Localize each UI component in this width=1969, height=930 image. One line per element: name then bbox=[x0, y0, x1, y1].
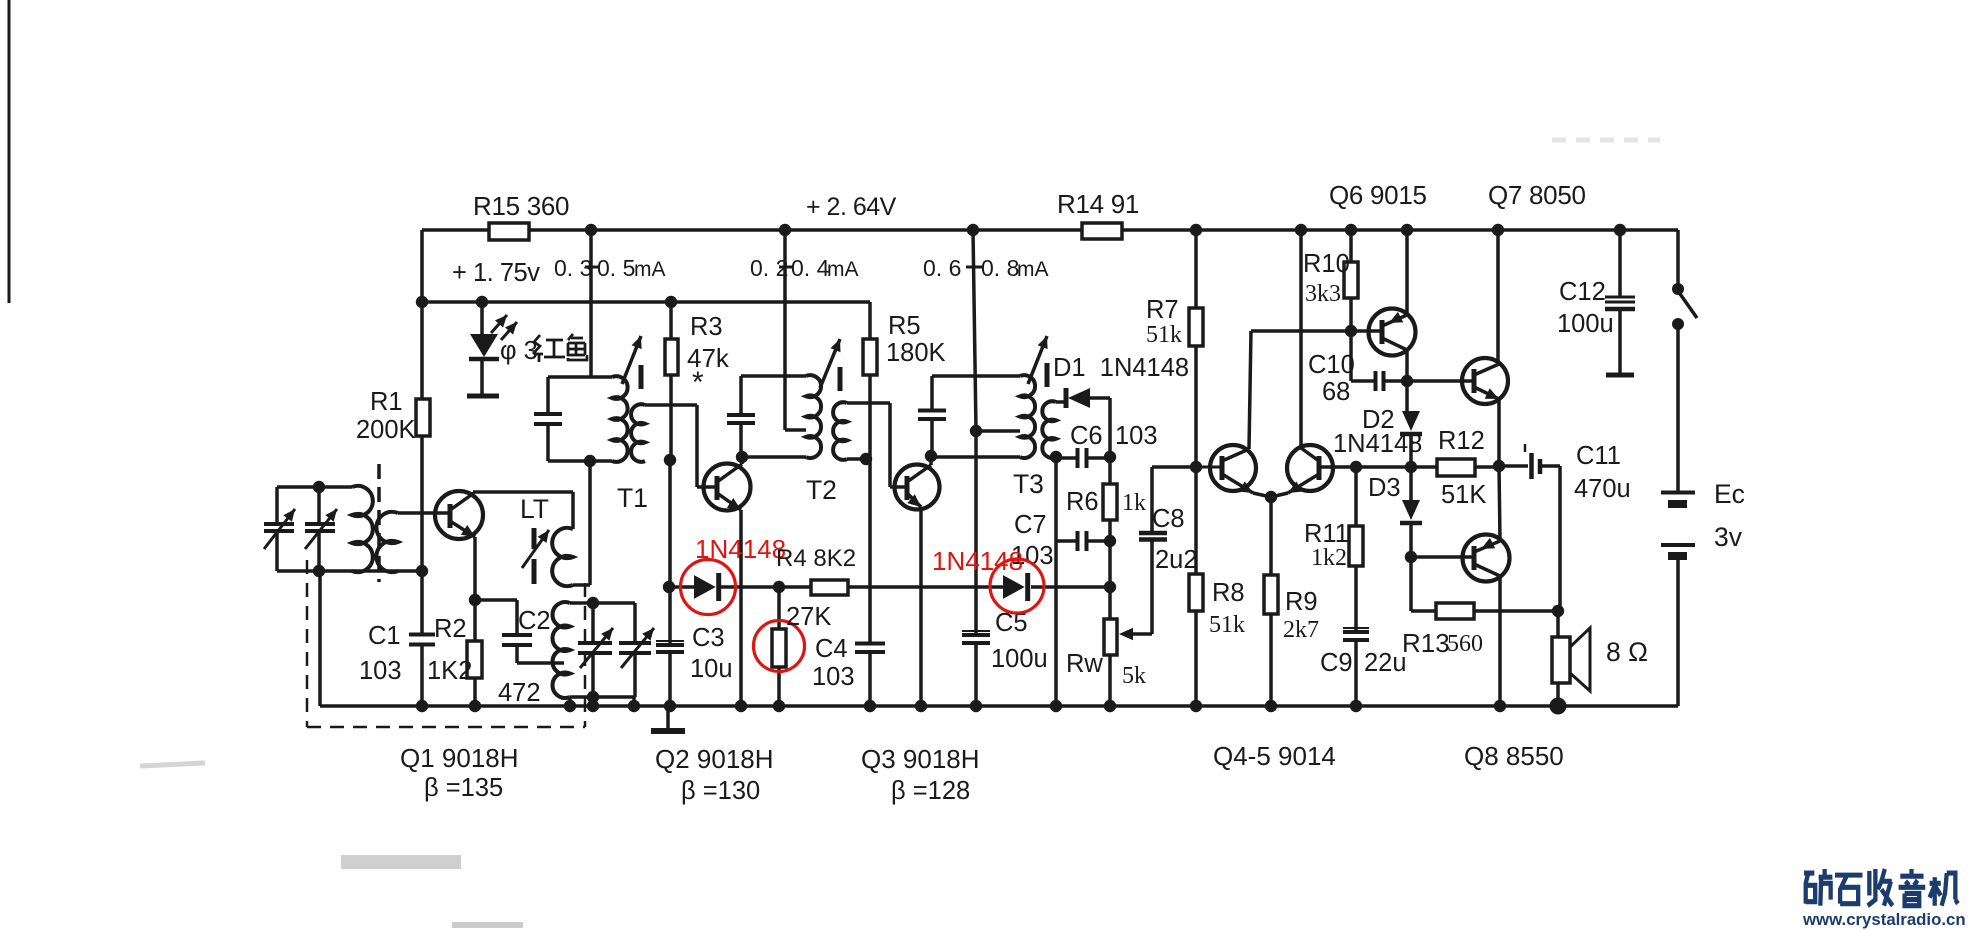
svg-text:+ 1. 75v: + 1. 75v bbox=[452, 259, 540, 287]
wire Q4 emitter to node bbox=[1253, 493, 1271, 497]
svg-text:103: 103 bbox=[1115, 422, 1158, 450]
node Q8-base-node bbox=[1405, 551, 1417, 563]
resistor R3 bbox=[665, 339, 678, 375]
wire Q8 emitter up bbox=[1499, 466, 1500, 541]
transistor Q2 bbox=[704, 464, 751, 511]
svg-text:R12: R12 bbox=[1438, 427, 1485, 455]
svg-text:R4 8K2: R4 8K2 bbox=[776, 545, 856, 572]
wire T2 supply x785 bbox=[783, 230, 787, 430]
T3 core adjust bbox=[1028, 336, 1047, 384]
node Q4-base bbox=[1190, 461, 1202, 473]
wire T2 bottom bbox=[742, 455, 806, 459]
wire T1bot to LT bbox=[588, 461, 592, 585]
svg-text:10u: 10u bbox=[690, 655, 733, 683]
node Q7-coll-top bbox=[1492, 224, 1504, 236]
node det-line-left bbox=[663, 581, 675, 593]
svg-text:100u: 100u bbox=[991, 645, 1048, 673]
svg-text:T2: T2 bbox=[806, 475, 837, 505]
wire left supply vertical (x422) bbox=[420, 230, 424, 302]
svg-text:Q8 8550: Q8 8550 bbox=[1464, 741, 1564, 771]
node ant-bot bbox=[313, 565, 325, 577]
node Q6-coll-top bbox=[1401, 224, 1413, 236]
wire +1.75v rail bbox=[422, 300, 870, 304]
node T1-supply bbox=[585, 224, 597, 236]
resistor R6 bbox=[1103, 484, 1117, 520]
wire 27K resistor bbox=[777, 587, 781, 629]
dashed box bottom bbox=[307, 726, 585, 729]
ground symbol bbox=[666, 706, 670, 729]
svg-text:68: 68 bbox=[1322, 378, 1350, 406]
node C6-right bbox=[1104, 451, 1116, 463]
svg-text:R1: R1 bbox=[370, 388, 403, 416]
svg-text:1K2: 1K2 bbox=[427, 657, 472, 685]
svg-text:R14 91: R14 91 bbox=[1057, 189, 1139, 219]
wire T3 mid vertical bbox=[974, 431, 978, 587]
diode D3 bbox=[1402, 500, 1420, 520]
svg-text:470u: 470u bbox=[1574, 475, 1631, 503]
svg-text:1N4148: 1N4148 bbox=[932, 546, 1023, 576]
svg-text:22u: 22u bbox=[1364, 649, 1407, 677]
svg-text:R5: R5 bbox=[888, 312, 921, 340]
wire +2.64V top supply rail bbox=[422, 228, 1678, 232]
transistor Q3 bbox=[895, 465, 940, 510]
T1 core adjust bbox=[622, 336, 641, 384]
wire C3 vertical bbox=[668, 460, 672, 587]
dashed box right bbox=[584, 583, 587, 727]
svg-text:D1 1N4148: D1 1N4148 bbox=[1053, 354, 1189, 382]
wire T1 cap branch bbox=[546, 377, 550, 414]
variable capacitor CV2 arrow bbox=[305, 509, 337, 549]
coil T1 primary bbox=[612, 376, 628, 462]
node output-node bbox=[1493, 460, 1505, 472]
variable capacitor CV3 arrow bbox=[580, 628, 613, 668]
capacitor T3 tuning cap bbox=[918, 409, 946, 413]
wire osc varcap2 bbox=[633, 603, 637, 643]
resistor R10 bbox=[1344, 262, 1358, 298]
wire osc varcap1 bbox=[591, 603, 595, 643]
capacitor C5 (100u) bbox=[962, 633, 990, 637]
node D2D3-line bbox=[1405, 461, 1417, 473]
node C12-top bbox=[1614, 224, 1626, 236]
node T2sec-bot-R5 bbox=[860, 453, 872, 465]
capacitor C12 (100u) bbox=[1605, 296, 1635, 299]
svg-text:Rw: Rw bbox=[1066, 650, 1103, 678]
node rail2-x482 bbox=[476, 296, 488, 308]
resistor R15 bbox=[489, 223, 529, 240]
gray smudge 2 bbox=[140, 763, 205, 766]
LED D-led bbox=[470, 334, 498, 357]
resistor R8 bbox=[1189, 574, 1203, 611]
svg-text:0. 8: 0. 8 bbox=[981, 255, 1019, 281]
svg-text:560: 560 bbox=[1447, 631, 1483, 657]
svg-text:1N4148: 1N4148 bbox=[1333, 430, 1422, 458]
diode D4 1N4148 bbox=[694, 575, 716, 599]
wire osc coil gnd stub bbox=[568, 697, 572, 706]
capacitor T1 tuning cap bbox=[534, 412, 562, 416]
variable capacitor CV4 arrow bbox=[621, 628, 654, 668]
capacitor C1 bbox=[409, 633, 435, 637]
wire T3 supply x976 bbox=[973, 230, 976, 430]
resistor R4 bbox=[811, 580, 848, 595]
resistor R13 bbox=[1436, 603, 1474, 619]
svg-text:C12: C12 bbox=[1559, 278, 1606, 306]
node R10-top bbox=[1345, 224, 1357, 236]
wire D3 to Q8 base bbox=[1409, 523, 1413, 557]
node Q2-coll-T2 bbox=[736, 451, 748, 463]
resistor R1 bbox=[416, 399, 430, 436]
resistor R7 bbox=[1189, 308, 1203, 346]
LT core adjust symbol bbox=[532, 528, 537, 549]
node det-27K bbox=[773, 581, 785, 593]
node T3sec-bot bbox=[1050, 451, 1062, 463]
svg-text:51k: 51k bbox=[1209, 612, 1245, 638]
wire Q6 collector bbox=[1405, 230, 1409, 316]
svg-text:3v: 3v bbox=[1714, 522, 1743, 552]
wire C12 vertical bbox=[1618, 230, 1622, 297]
wire T3 bottom bbox=[931, 455, 1020, 459]
wire Q8 collector down bbox=[1498, 576, 1502, 706]
wire ground rail bbox=[320, 704, 1678, 708]
svg-text:51k: 51k bbox=[1146, 322, 1182, 348]
node osc-bot-vc1 bbox=[587, 691, 599, 703]
potentiometer Rw bbox=[1104, 619, 1117, 655]
wire Q6e to Q7 base bbox=[1407, 379, 1473, 383]
svg-text:Q1 9018H: Q1 9018H bbox=[400, 743, 519, 773]
svg-text:R8: R8 bbox=[1212, 579, 1245, 607]
wire Q4 collector bbox=[1249, 331, 1251, 449]
watermark logo text bbox=[1804, 869, 1958, 906]
wire Q1e to R2 bbox=[473, 600, 477, 641]
svg-text:1k2: 1k2 bbox=[1311, 545, 1347, 571]
red circle around 27K bbox=[754, 621, 805, 672]
transistor Q4 bbox=[1210, 445, 1256, 491]
svg-text:200K: 200K bbox=[356, 416, 416, 444]
diode D2 bbox=[1402, 411, 1420, 431]
wire Q7 collector bbox=[1496, 230, 1500, 364]
svg-text:3k3: 3k3 bbox=[1305, 281, 1341, 307]
wire tuning box left bbox=[275, 487, 279, 524]
wire emitters to R9 bbox=[1269, 497, 1273, 575]
svg-text:R3: R3 bbox=[690, 313, 723, 341]
svg-text:R15 360: R15 360 bbox=[473, 191, 569, 221]
wire T3 tap bbox=[976, 429, 1020, 433]
wire Q7 emitter bbox=[1497, 399, 1501, 466]
wire Q2 emitter bbox=[739, 510, 743, 706]
svg-text:180K: 180K bbox=[886, 339, 946, 367]
wire D1 to x1110 bbox=[1090, 396, 1110, 400]
scan edge artifact line bbox=[8, 0, 11, 303]
wire line to D3 bbox=[1409, 467, 1413, 500]
Rw wiper arrow bbox=[1119, 628, 1133, 641]
wire x1110 to det line bbox=[1108, 541, 1112, 587]
wire Q8base to R13 bbox=[1409, 557, 1413, 611]
node Q3-coll-T3 bbox=[925, 450, 937, 462]
variable capacitor CV4 plates bbox=[619, 641, 651, 645]
wire R13 to speaker bbox=[1474, 609, 1558, 613]
svg-text:C10: C10 bbox=[1308, 351, 1355, 379]
svg-text:C4: C4 bbox=[815, 635, 848, 663]
node speaker-top bbox=[1552, 605, 1564, 617]
svg-text:103: 103 bbox=[812, 663, 855, 691]
svg-text:Q4-5 9014: Q4-5 9014 bbox=[1213, 741, 1336, 771]
wire R12 to output bbox=[1475, 465, 1499, 469]
variable capacitor CV1 plates bbox=[264, 522, 294, 526]
transistor Q1 bbox=[435, 491, 483, 539]
node Q1-emitter bbox=[469, 594, 481, 606]
capacitor C10 (68) bbox=[1349, 331, 1353, 381]
wire osc bottom bbox=[570, 695, 635, 699]
gray smudge 3 bbox=[452, 922, 523, 928]
svg-text:Ec: Ec bbox=[1714, 479, 1745, 509]
node det-x1110 bbox=[1104, 581, 1116, 593]
wire rail to switch bbox=[1676, 230, 1680, 289]
wire osc top bbox=[570, 601, 635, 605]
svg-text:Q3 9018H: Q3 9018H bbox=[861, 744, 980, 774]
antenna coil secondary bbox=[376, 512, 398, 572]
svg-text:C6: C6 bbox=[1070, 422, 1103, 450]
svg-text:T1: T1 bbox=[617, 483, 648, 513]
svg-text:0. 6: 0. 6 bbox=[923, 255, 961, 281]
capacitor C9 (22u) bbox=[1343, 630, 1369, 634]
svg-text:0. 4: 0. 4 bbox=[791, 255, 830, 281]
coil T2 secondary bbox=[833, 402, 847, 460]
node R7-top bbox=[1190, 224, 1202, 236]
svg-text:T3: T3 bbox=[1013, 469, 1044, 499]
coil LT bbox=[552, 528, 573, 586]
wire R10 vertical bbox=[1349, 230, 1353, 262]
svg-text:51K: 51K bbox=[1441, 481, 1486, 509]
node speaker-gnd bbox=[1550, 698, 1567, 715]
node T3-tap bbox=[970, 425, 982, 437]
wire Q5 emitter to node bbox=[1271, 493, 1288, 497]
coil T2 primary bbox=[806, 375, 821, 458]
node R11-top bbox=[1350, 461, 1362, 473]
wire Q3 emitter bbox=[919, 507, 923, 706]
svg-text:27K: 27K bbox=[786, 603, 831, 631]
svg-text:R6: R6 bbox=[1066, 488, 1099, 516]
wire T2 cap branch bbox=[739, 376, 743, 415]
resistor R9 bbox=[1264, 575, 1278, 614]
svg-text:β =128: β =128 bbox=[891, 777, 970, 805]
wire Q8 base line bbox=[1411, 555, 1473, 559]
svg-text:C9: C9 bbox=[1320, 649, 1353, 677]
svg-text:mA: mA bbox=[827, 258, 859, 281]
capacitor C8 (2u2) bbox=[1139, 531, 1167, 536]
svg-text:5k: 5k bbox=[1122, 663, 1146, 689]
node rail2-x422 bbox=[416, 296, 428, 308]
wire R1-C1 vertical x422 bbox=[420, 302, 424, 399]
svg-text:Q6 9015: Q6 9015 bbox=[1329, 180, 1427, 210]
wire Q5base-R11-D2 line bbox=[1319, 465, 1437, 469]
node sec-bot-x422 bbox=[416, 565, 428, 577]
wire T1 bottom bbox=[548, 459, 612, 463]
wire Q2 collector bbox=[740, 457, 744, 464]
capacitor C11 (470u) bbox=[1499, 464, 1528, 468]
svg-text:φ 3: φ 3 bbox=[500, 337, 538, 365]
svg-text:mA: mA bbox=[634, 258, 666, 281]
svg-text:Q7 8050: Q7 8050 bbox=[1488, 180, 1586, 210]
svg-text:8 Ω: 8 Ω bbox=[1606, 637, 1648, 667]
resistor R5 bbox=[863, 339, 877, 375]
capacitor C3 (10u) bbox=[656, 643, 684, 647]
resistor R11 bbox=[1349, 526, 1363, 566]
wire Q6 emitter bbox=[1405, 350, 1409, 411]
wire R11 vertical bbox=[1354, 467, 1358, 526]
wire T2sec top to Q3 base bbox=[847, 401, 890, 405]
wire D2 to line bbox=[1409, 434, 1413, 467]
svg-text:103: 103 bbox=[359, 657, 402, 685]
svg-text:472: 472 bbox=[498, 679, 541, 707]
red circle around D5 bbox=[990, 559, 1044, 613]
resistor R12 bbox=[1437, 459, 1475, 476]
wire R7R8 vertical bbox=[1194, 230, 1198, 308]
svg-text:100u: 100u bbox=[1557, 310, 1614, 338]
coil T3 primary bbox=[1020, 375, 1035, 458]
svg-text:1N4148: 1N4148 bbox=[695, 534, 786, 564]
wire T1sec top to Q2 base bbox=[645, 403, 697, 407]
ground rail nodes bbox=[416, 700, 428, 712]
svg-text:LT: LT bbox=[520, 494, 549, 524]
coil T1 secondary bbox=[631, 404, 645, 462]
svg-text:R11: R11 bbox=[1304, 520, 1349, 548]
svg-text:mA: mA bbox=[1017, 258, 1049, 281]
node ant-top bbox=[313, 481, 325, 493]
wire T3 top bbox=[932, 374, 1020, 378]
variable capacitor CV3 plates bbox=[578, 641, 612, 645]
battery Ec bbox=[1661, 491, 1695, 495]
node rail2-x671 bbox=[665, 296, 677, 308]
transistor Q8 bbox=[1463, 535, 1510, 582]
wire T2 top bbox=[741, 374, 806, 378]
wire switch to battery bbox=[1676, 324, 1680, 491]
capacitor T2 tuning cap bbox=[727, 413, 755, 417]
node T1sec-bot bbox=[664, 454, 676, 466]
dashed box left bbox=[306, 560, 309, 727]
svg-text:R9: R9 bbox=[1285, 588, 1318, 616]
svg-text:2u2: 2u2 bbox=[1155, 546, 1198, 574]
svg-text:R10: R10 bbox=[1303, 250, 1350, 278]
node Q5-coll-top bbox=[1295, 224, 1307, 236]
transistor Q7 bbox=[1462, 358, 1508, 404]
wire LT top right corner bbox=[571, 492, 575, 529]
capacitor C7 bbox=[1056, 539, 1077, 543]
wire R3 vertical bbox=[669, 302, 673, 339]
wire Rw vertical bbox=[1108, 587, 1112, 619]
svg-text:R13: R13 bbox=[1402, 628, 1450, 658]
wire Q3 collector bbox=[929, 457, 933, 465]
svg-text:0. 5: 0. 5 bbox=[597, 255, 635, 281]
svg-text:β =130: β =130 bbox=[681, 777, 760, 805]
speaker bbox=[1556, 611, 1560, 637]
diode D5 1N4148 bbox=[1003, 575, 1025, 599]
wire Q1e to C2 bbox=[475, 598, 517, 602]
antenna coil primary bbox=[352, 486, 373, 572]
node T3-supply bbox=[967, 224, 979, 236]
svg-text:R7: R7 bbox=[1146, 296, 1179, 324]
wire T1 top bbox=[548, 375, 612, 379]
LED light arrows bbox=[491, 315, 507, 333]
resistor R2 bbox=[467, 641, 482, 678]
wire tuning box top bbox=[277, 485, 352, 489]
diode D1 bbox=[1064, 388, 1069, 408]
wire antenna gnd drop bbox=[318, 571, 322, 706]
wire secondary top to Q1 base bbox=[398, 511, 450, 515]
node osc-top-vc1 bbox=[587, 597, 599, 609]
svg-text:C11: C11 bbox=[1576, 442, 1621, 470]
switch S1 bbox=[1672, 283, 1684, 295]
node T2-supply bbox=[779, 224, 791, 236]
svg-text:*: * bbox=[692, 366, 704, 399]
wire detector line bbox=[669, 585, 694, 589]
node Q4Q5-emitters bbox=[1265, 491, 1277, 503]
svg-text:2k7: 2k7 bbox=[1283, 617, 1319, 643]
wire LT bottom bbox=[573, 583, 590, 587]
wire x1056 vertical bbox=[1054, 457, 1058, 541]
capacitor C4 bbox=[855, 642, 885, 646]
svg-text:1k: 1k bbox=[1122, 490, 1146, 516]
resistor R14 bbox=[1082, 223, 1122, 239]
gray smudge top right bbox=[1552, 138, 1660, 143]
capacitor C6 bbox=[1056, 456, 1077, 460]
capacitor C2 bbox=[502, 633, 532, 637]
transistor Q6 bbox=[1369, 309, 1416, 356]
wire R5 vertical bbox=[868, 302, 872, 339]
ferrite core dashed line bbox=[377, 464, 381, 582]
svg-text:C8: C8 bbox=[1152, 505, 1185, 533]
wire R6 vertical bbox=[1108, 457, 1112, 484]
wire Q1 collector bbox=[473, 490, 573, 494]
T2 core adjust bbox=[820, 339, 840, 388]
wire T2sec bottom to R5wire bbox=[847, 457, 870, 461]
wire battery to ground bbox=[1676, 556, 1680, 706]
svg-text:C3: C3 bbox=[692, 624, 725, 652]
wire Q5 collector bbox=[1299, 230, 1303, 448]
wire Q1 emitter bbox=[473, 537, 477, 600]
node R10-bottom bbox=[1345, 325, 1357, 337]
svg-text:R2: R2 bbox=[434, 615, 467, 643]
svg-text:C2: C2 bbox=[518, 607, 551, 635]
svg-text:+ 2. 64V: + 2. 64V bbox=[806, 193, 897, 221]
wire T1 supply x591 bbox=[589, 230, 593, 377]
svg-text:C1: C1 bbox=[368, 622, 401, 650]
node C7-right bbox=[1104, 535, 1116, 547]
variable capacitor CV1 arrow bbox=[264, 509, 295, 549]
transistor Q5 bbox=[1287, 445, 1333, 491]
svg-text:www.crystalradio.cn: www.crystalradio.cn bbox=[1802, 910, 1966, 929]
wire LED vertical bbox=[480, 302, 484, 334]
gray smudge 1 bbox=[341, 855, 461, 869]
wire CV2 vertical bbox=[317, 487, 321, 524]
resistor 27K bbox=[772, 629, 786, 667]
variable capacitor CV2 plates bbox=[305, 522, 335, 526]
wire T3sec top to D1 bbox=[1056, 400, 1066, 404]
svg-text:C7: C7 bbox=[1014, 511, 1047, 539]
node Q6e-C10 bbox=[1401, 375, 1413, 387]
red circle around D4 bbox=[681, 560, 736, 615]
wire tuning box bottom bbox=[277, 569, 422, 573]
svg-text:Q2 9018H: Q2 9018H bbox=[655, 744, 774, 774]
wire T3 cap branch bbox=[930, 376, 934, 410]
coil Losc bbox=[553, 602, 570, 698]
svg-text:β =135: β =135 bbox=[424, 774, 503, 802]
coil T3 secondary bbox=[1042, 401, 1056, 458]
wire C8 up bbox=[1150, 467, 1154, 533]
svg-text:D3: D3 bbox=[1368, 474, 1401, 502]
node T1-bot-LT bbox=[584, 455, 596, 467]
